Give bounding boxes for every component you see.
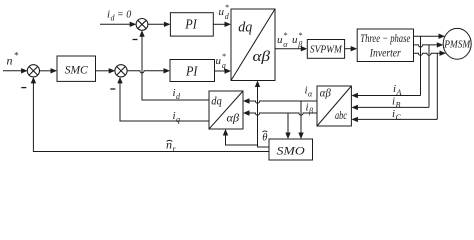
wire id* input (100, 23, 131, 25)
arrow into dq (ud*) (225, 22, 232, 27)
block PI1 (170, 13, 213, 36)
wire iC to abc block (357, 118, 437, 120)
svg-text:SMC: SMC (65, 65, 88, 77)
arrow phase C into PMSM (440, 51, 447, 56)
block PI2 (170, 60, 215, 82)
arrow nr-hat feedback into circle0 (31, 77, 36, 84)
svg-text:abc: abc (335, 110, 347, 122)
block dq/alphabeta big (231, 9, 275, 81)
svg-text:θ: θ (262, 132, 267, 143)
motor PMSM (443, 28, 471, 59)
label iA (393, 83, 402, 97)
block three-phase inverter (357, 29, 413, 62)
svg-text:β: β (297, 40, 302, 49)
svg-text:n: n (7, 53, 13, 67)
svg-text:u: u (219, 6, 225, 18)
wire id feedback (142, 35, 209, 100)
label i-alpha (305, 85, 314, 99)
svg-text:*: * (283, 31, 287, 40)
svg-text:dq: dq (211, 96, 222, 108)
wire iB to abc block (357, 106, 429, 108)
arrow i-beta drop into SMO (285, 133, 290, 140)
wire PI2 to dq block (uq*) (215, 70, 227, 72)
svg-text:dq: dq (238, 20, 252, 36)
wire dq to SVPWM (275, 48, 303, 50)
arrow i-alpha drop into SMO (298, 133, 303, 140)
svg-text:u: u (216, 55, 222, 67)
arrow i-beta into lower dq (243, 110, 250, 115)
label id = 0 (107, 9, 131, 23)
arrow id feedback into circle1 (139, 30, 144, 37)
svg-text:q: q (222, 61, 226, 70)
summing junction circle1 (136, 19, 148, 31)
label nr-hat (166, 138, 177, 154)
wire iq feedback (120, 81, 209, 121)
wire theta-hat branch to lower dq block (226, 134, 258, 146)
arrow into PI1 (164, 22, 171, 27)
svg-text:*: * (298, 31, 302, 40)
svg-text:β: β (308, 107, 313, 116)
wire circle0 to SMC (40, 70, 53, 72)
wire phase B inverter to PMSM (hop at x=420.5) (414, 45, 439, 47)
wire nr-hat feedback (33, 81, 269, 151)
label iC (392, 108, 402, 122)
arrow into PI2 (164, 68, 171, 73)
arrow iq feedback into circle2 (117, 77, 122, 84)
svg-text:Inverter: Inverter (369, 46, 401, 60)
minus sign at circle0 (21, 87, 26, 89)
minus sign at circle1 (133, 39, 138, 41)
block alphabeta/abc (317, 86, 351, 126)
label theta-hat (262, 131, 267, 143)
label i-beta (306, 102, 314, 116)
svg-text:PI: PI (184, 17, 198, 32)
label uq* (216, 52, 226, 70)
arrow iB into abc block (351, 105, 358, 110)
wire i-beta drop to SMO (287, 113, 289, 135)
wire phase C tap vertical (436, 53, 438, 119)
arrow phase B into PMSM (437, 42, 444, 47)
wire PI1 to dq block (ud*) (213, 23, 226, 25)
label ud* (219, 3, 230, 21)
label u-beta* (292, 31, 302, 49)
svg-text:αβ: αβ (320, 88, 331, 100)
block SVPWM (307, 40, 344, 59)
svg-text:PI: PI (185, 63, 199, 78)
svg-text:SMO: SMO (277, 146, 306, 158)
svg-text:C: C (396, 113, 402, 122)
arrow into dq (uq*) (225, 68, 232, 73)
wire theta-hat from SMO up to big dq block (258, 85, 270, 147)
svg-text:= 0: = 0 (117, 10, 131, 21)
wire circle1 to PI1 (148, 23, 166, 25)
svg-text:q: q (176, 115, 180, 124)
arrow into inverter (351, 46, 358, 51)
svg-text:αβ: αβ (253, 49, 271, 65)
wire phase C inverter to PMSM (hops at x=420.5, x=429) (414, 53, 442, 55)
wire SVPWM to inverter (345, 48, 353, 50)
arrow i-alpha into lower dq (243, 98, 250, 103)
arrow iC into abc block (351, 117, 358, 122)
wire i-beta abc block to lower dq (hops at x=301, x=257.5) (249, 113, 317, 115)
arrow into SVPWM (301, 46, 308, 51)
wire SMC to circle2 (96, 70, 111, 72)
svg-text:Three − phase: Three − phase (360, 31, 410, 45)
svg-text:A: A (396, 88, 402, 97)
wire n* input (3, 70, 23, 72)
minus sign at circle2 (110, 88, 115, 90)
wire i-alpha abc block to lower dq (hop at x=257.5) (249, 101, 317, 103)
block dq/alphabeta lower (209, 91, 243, 129)
svg-text:*: * (14, 51, 19, 61)
block SMC (57, 56, 96, 81)
block SMO (269, 139, 313, 160)
svg-text:u: u (292, 34, 298, 46)
svg-text:B: B (396, 101, 401, 110)
wire circle2 to PI2 (hop over id feedback at x=142) (127, 71, 165, 73)
wire phase A inverter to PMSM (414, 35, 441, 37)
summing junction circle2 (115, 65, 127, 77)
arrow theta-hat into big dq bottom (255, 81, 260, 88)
label id feedback (173, 87, 182, 101)
arrow into SMC (51, 68, 58, 73)
label iB (392, 96, 401, 110)
svg-text:n: n (166, 138, 172, 152)
arrow theta-hat into lower dq bottom (223, 129, 228, 136)
svg-text:u: u (277, 34, 283, 46)
arrow into circle0 (21, 68, 28, 73)
wire i-alpha drop to SMO (300, 101, 302, 135)
svg-text:αβ: αβ (227, 113, 240, 125)
svg-text:SVPWM: SVPWM (310, 45, 343, 56)
arrow iA into abc block (351, 93, 358, 98)
wire phase A tap vertical (420, 36, 422, 95)
label u-alpha* (277, 31, 288, 49)
arrow into circle2 (109, 68, 116, 73)
arrow phase A into PMSM (439, 34, 446, 39)
svg-text:*: * (222, 52, 226, 61)
wire iA to abc block (357, 95, 421, 97)
label iq feedback (173, 110, 181, 124)
arrow into circle1 (130, 22, 137, 27)
wire phase B tap vertical (428, 45, 430, 108)
svg-text:PMSM: PMSM (443, 39, 471, 51)
summing junction circle0 (27, 65, 39, 77)
svg-text:*: * (225, 3, 229, 12)
label n* (7, 51, 19, 68)
